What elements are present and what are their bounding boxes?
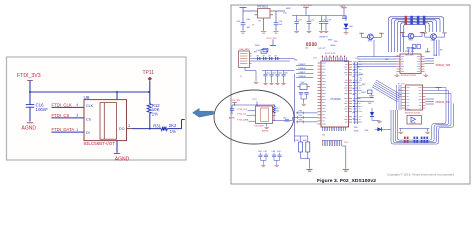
svg-text:4: 4 [76, 103, 78, 107]
svg-text:Figure 3. P02_XDS100v2: Figure 3. P02_XDS100v2 [317, 178, 376, 184]
svg-text:2: 2 [128, 124, 130, 128]
svg-text:1: 1 [76, 128, 78, 132]
svg-text:FTDI_DATA: FTDI_DATA [52, 127, 75, 132]
svg-text:CS: CS [86, 117, 92, 121]
svg-text:FTDI_DATA: FTDI_DATA [237, 119, 249, 122]
svg-text:1uF: 1uF [279, 24, 283, 26]
svg-text:R69: R69 [434, 55, 437, 57]
svg-text:2K2: 2K2 [169, 123, 177, 128]
svg-text:TR61: TR61 [408, 40, 413, 42]
svg-text:R61: R61 [299, 115, 302, 117]
svg-text:AGND: AGND [115, 156, 130, 162]
svg-text:100nF: 100nF [36, 107, 49, 112]
svg-text:TP11: TP11 [143, 70, 155, 76]
svg-text:6MHz: 6MHz [331, 45, 336, 47]
svg-text:FTDI_CLK: FTDI_CLK [52, 102, 72, 107]
svg-text:C62: C62 [266, 72, 269, 74]
svg-text:C63: C63 [272, 72, 275, 74]
svg-text:C74: C74 [313, 58, 316, 60]
svg-text:U8: U8 [84, 95, 90, 100]
svg-text:600R: 600R [286, 8, 291, 10]
svg-text:330R: 330R [354, 131, 359, 133]
svg-text:DI: DI [86, 131, 90, 135]
svg-text:USBDM: USBDM [299, 76, 307, 78]
svg-text:C64: C64 [278, 72, 281, 74]
svg-text:USBDP: USBDP [299, 72, 307, 74]
svg-text:TEST: TEST [328, 40, 334, 42]
svg-text:CLK: CLK [86, 104, 94, 108]
svg-text:R66: R66 [360, 74, 363, 76]
svg-text:SN74LVC2G125: SN74LVC2G125 [405, 112, 421, 114]
svg-text:C75: C75 [355, 58, 358, 60]
svg-text:1 2 3 4: 1 2 3 4 [330, 57, 336, 59]
svg-text:1%: 1% [152, 112, 158, 117]
svg-text:SN74LVC2G241: SN74LVC2G241 [401, 75, 417, 77]
svg-text:AGND: AGND [229, 116, 236, 119]
svg-text:USBDP: USBDP [299, 64, 307, 66]
svg-text:TDO: TDO [344, 142, 349, 144]
svg-text:TPS76333: TPS76333 [257, 7, 269, 9]
svg-text:U63: U63 [398, 90, 401, 92]
svg-text:TR62: TR62 [431, 40, 436, 42]
svg-text:FTDI_CS: FTDI_CS [237, 114, 246, 116]
svg-text:USBDM: USBDM [299, 68, 307, 70]
svg-text:FTDI_CLK: FTDI_CLK [237, 109, 247, 111]
svg-text:4 8 12 16 20: 4 8 12 16 20 [325, 53, 335, 55]
svg-text:LED_EN: LED_EN [405, 54, 414, 56]
svg-text:XDS100_TCK: XDS100_TCK [436, 102, 451, 104]
svg-text:DO: DO [119, 127, 125, 131]
svg-text:3: 3 [76, 114, 78, 118]
svg-text:R60: R60 [299, 111, 302, 113]
svg-text:L60: L60 [284, 13, 287, 15]
svg-text:SHLD: SHLD [255, 45, 261, 47]
svg-text:J61: J61 [322, 135, 325, 137]
svg-text:U61: U61 [385, 59, 388, 61]
svg-text:TR60: TR60 [368, 40, 373, 42]
svg-text:C76 C77: C76 C77 [318, 48, 325, 50]
svg-text:U62: U62 [396, 56, 399, 58]
svg-text:R62: R62 [299, 120, 302, 122]
svg-text:C65: C65 [284, 72, 287, 74]
svg-text:TPD2E: TPD2E [410, 123, 417, 125]
svg-text:X60: X60 [334, 41, 337, 43]
svg-text:R64: R64 [247, 19, 250, 21]
svg-text:R65: R65 [294, 60, 297, 62]
svg-text:AGND: AGND [22, 126, 37, 132]
svg-text:93LC56BT: 93LC56BT [255, 125, 265, 127]
svg-text:FTDI_3V3: FTDI_3V3 [17, 73, 41, 79]
svg-text:RESET#: RESET# [320, 37, 329, 39]
svg-text:R68: R68 [354, 127, 357, 129]
svg-text:FTDI_3V3: FTDI_3V3 [267, 38, 278, 40]
svg-text:USB_MINI: USB_MINI [239, 49, 250, 51]
svg-text:1%: 1% [170, 129, 176, 134]
svg-text:AGND: AGND [262, 130, 269, 133]
svg-text:R31: R31 [153, 123, 161, 128]
svg-text:93LC56BT-I/OT: 93LC56BT-I/OT [84, 141, 116, 146]
svg-text:R67: R67 [362, 84, 365, 86]
svg-text:FT2232D: FT2232D [331, 98, 341, 101]
svg-text:FTDI_CS: FTDI_CS [52, 113, 70, 118]
svg-text:Copyright © 2016, Texas Instru: Copyright © 2016, Texas Instruments Inco… [387, 172, 454, 176]
svg-text:PWR_EN: PWR_EN [405, 51, 414, 53]
svg-text:XDS100_TMS: XDS100_TMS [436, 65, 451, 67]
svg-text:D62: D62 [368, 103, 371, 105]
svg-text:U64: U64 [407, 110, 410, 112]
svg-text:FTDI_3V3: FTDI_3V3 [231, 100, 241, 102]
